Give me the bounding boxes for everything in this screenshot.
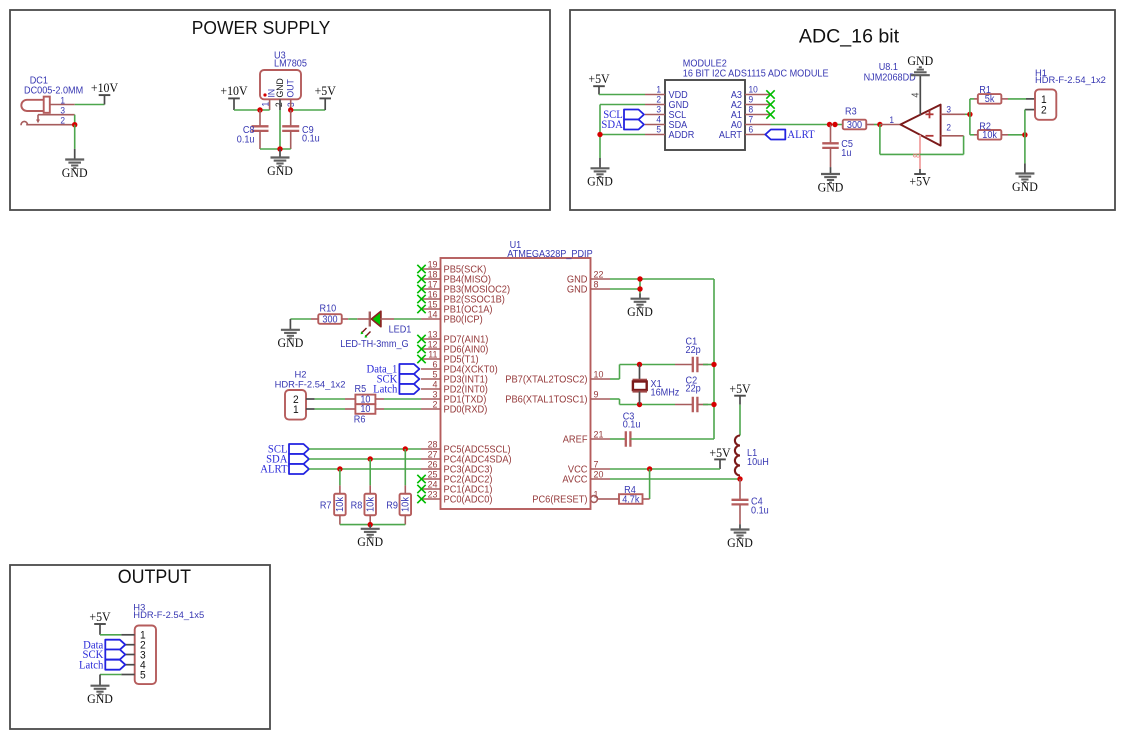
U1 pin 12 PD6(AIN0)	[421, 348, 441, 350]
op-amp plus mark	[926, 113, 934, 115]
U1 pin 16 PB2(SSOC1B)	[421, 298, 441, 300]
svg-text:R9: R9	[386, 500, 398, 511]
capacitor C8	[259, 110, 261, 126]
svg-text:GND: GND	[267, 163, 293, 177]
wire AREF to C3	[610, 438, 626, 440]
svg-text:2: 2	[60, 115, 65, 125]
U1 pin 3 PD1(TXD)	[421, 398, 441, 400]
wire AVCC to L1	[610, 478, 740, 480]
svg-text:GND: GND	[275, 78, 285, 98]
resistor R6	[355, 404, 375, 414]
wire feedback up to pin 2	[963, 136, 965, 155]
wire MODULE2 GND pin to ground rail	[600, 104, 645, 106]
junction R2/H1 pin2/GND	[1022, 132, 1027, 137]
wire C3 to GND rail	[630, 438, 714, 440]
U1 pin 26 PC3(ADC3)	[421, 468, 441, 470]
wire U3 pin3 to +5V	[291, 109, 326, 111]
svg-text:OUT: OUT	[285, 79, 295, 98]
svg-text:22p: 22p	[686, 383, 701, 394]
junction ground rail	[277, 146, 282, 151]
svg-text:17: 17	[428, 279, 438, 289]
svg-text:8: 8	[749, 104, 754, 114]
wire +5V to H3 pin 1	[100, 634, 121, 636]
wire feedback from output node down	[879, 125, 881, 155]
wire A0 to R3	[771, 124, 843, 126]
ground GND at U1 right	[631, 299, 650, 308]
R1 lead to H1 pin 1	[1001, 98, 1008, 100]
power symbol +5V below op-amp	[919, 169, 921, 174]
svg-text:AVCC: AVCC	[562, 474, 587, 485]
svg-text:3: 3	[946, 104, 951, 114]
svg-text:HDR-F-2.54_1x2: HDR-F-2.54_1x2	[275, 378, 346, 389]
U1 pin 2 PD0(RXD)	[421, 408, 441, 410]
no-connect X on MODULE2 A2	[766, 100, 774, 108]
junction ADDR/ground	[597, 132, 602, 137]
svg-text:SDA: SDA	[601, 119, 622, 131]
wire DC1 junction to GND	[74, 125, 76, 149]
wire H2 pin1 to R6	[315, 408, 345, 410]
junction AVCC/L1/C4	[737, 476, 742, 481]
svg-text:GND: GND	[62, 165, 88, 179]
junction GND22	[637, 276, 642, 281]
svg-text:R1: R1	[979, 85, 991, 96]
ground GND at C5	[821, 174, 840, 183]
DC1 pin 2 lead (sleeve)	[26, 124, 74, 126]
global label SCL flag at U1	[289, 444, 309, 454]
no-connect X on U1 pin 23	[417, 495, 425, 503]
svg-text:8: 8	[912, 153, 923, 158]
R4 lead to PC6	[610, 498, 619, 500]
svg-text:16MHz: 16MHz	[651, 387, 680, 398]
svg-text:GND: GND	[278, 336, 304, 350]
svg-text:ATMEGA328P_PDIP: ATMEGA328P_PDIP	[507, 249, 592, 260]
no-connect X on MODULE2 A1	[766, 110, 774, 118]
svg-text:R5: R5	[355, 384, 367, 395]
resistor R8 (vertical)	[369, 485, 371, 493]
svg-text:+5V: +5V	[909, 174, 930, 188]
svg-text:GND: GND	[907, 54, 933, 68]
global label Data_1 flag	[399, 364, 419, 374]
R10 lead to LED	[342, 318, 349, 320]
flipped ground GND above op-amp	[911, 67, 930, 75]
U1 pin 11 PD5(T1)	[421, 358, 441, 360]
wire H2 pin2 to R5	[315, 398, 345, 400]
svg-text:LED-TH-3mm_G: LED-TH-3mm_G	[340, 339, 408, 350]
header H3 connector body	[135, 626, 156, 685]
svg-text:AREF: AREF	[563, 434, 588, 445]
U1 pin 20 AVCC	[591, 478, 611, 480]
svg-text:20: 20	[594, 469, 604, 479]
junction R9 tap on SCL	[403, 446, 408, 451]
global label Latch flag	[399, 384, 419, 394]
svg-text:PB7(XTAL2TOSC2): PB7(XTAL2TOSC2)	[505, 374, 587, 385]
svg-text:GND: GND	[357, 535, 383, 549]
svg-text:18: 18	[428, 269, 438, 279]
op-amp U8.1 triangle	[901, 105, 941, 146]
svg-text:GND: GND	[587, 174, 613, 188]
global label SCL flag at MODULE2	[624, 110, 644, 120]
svg-text:10: 10	[594, 369, 604, 379]
svg-text:Latch: Latch	[373, 383, 398, 395]
svg-text:GND: GND	[1012, 179, 1038, 193]
svg-text:POWER SUPPLY: POWER SUPPLY	[192, 17, 331, 38]
wire R7 tap down	[339, 469, 341, 485]
wire U3 pin 2 to ground rail	[279, 110, 281, 149]
wire feedback bottom	[880, 153, 964, 155]
junction C2 right	[711, 402, 716, 407]
power symbol +5V at L1	[739, 396, 741, 405]
svg-text:0.1u: 0.1u	[237, 134, 255, 145]
R3 lead to op-amp input	[866, 124, 874, 126]
svg-text:GND: GND	[567, 284, 588, 295]
global label ALRT flag at U1	[289, 464, 309, 474]
global label SCK flag at H3	[105, 650, 125, 660]
wire DC1 pin1 to +10V	[75, 104, 105, 106]
svg-text:300: 300	[322, 314, 337, 325]
svg-text:6: 6	[749, 124, 754, 134]
junction op-amp pin 1	[877, 122, 882, 127]
no-connect X on U1 pin 13	[417, 335, 425, 343]
U1 pin 8 GND	[591, 288, 611, 290]
capacitor C2	[675, 404, 693, 406]
U1 pin 27 PC4(ADC4SDA)	[421, 458, 441, 460]
junction at C5 tap	[827, 122, 832, 127]
connector DC1 barrel jack symbol	[21, 100, 44, 111]
svg-text:R2: R2	[979, 121, 991, 132]
svg-text:1: 1	[889, 115, 894, 125]
svg-text:28: 28	[428, 439, 438, 449]
wire U1 GND22 to rail	[610, 278, 714, 280]
U1 pin 9 PB6(XTAL1TOSC1)	[591, 398, 611, 400]
svg-text:DC005-2.0MM: DC005-2.0MM	[24, 85, 83, 96]
svg-text:+5V: +5V	[729, 382, 750, 396]
ground GND at U3	[271, 158, 290, 167]
svg-text:PD0(RXD): PD0(RXD)	[444, 404, 488, 415]
svg-text:GND: GND	[727, 535, 753, 549]
U1 pin 22 GND	[591, 278, 611, 280]
svg-text:300: 300	[847, 120, 862, 131]
wire U1 GND8 to junction	[610, 288, 640, 290]
svg-text:GND: GND	[87, 692, 113, 706]
junction R7 tap on ALRT	[337, 466, 342, 471]
svg-text:7: 7	[749, 114, 754, 124]
wire output node to R1	[969, 99, 971, 114]
svg-text:LED1: LED1	[389, 324, 412, 335]
ground GND at H1	[1015, 174, 1034, 183]
svg-text:ADC_16 bit: ADC_16 bit	[799, 26, 900, 48]
resistor R10	[318, 314, 342, 324]
svg-text:15: 15	[428, 299, 438, 309]
svg-text:3: 3	[433, 389, 438, 399]
wire GND tie vertical	[639, 279, 641, 294]
no-connect X on U1 pin 15	[417, 305, 425, 313]
header H1 connector body	[1035, 89, 1056, 119]
ground GND at C4	[731, 530, 750, 539]
global label ALRT flag at MODULE2	[765, 130, 785, 140]
U1 pin 23 PC0(ADC0)	[421, 498, 441, 500]
U1 pin 5 PD3(INT1)	[421, 378, 441, 380]
op-amp pin 2 lead	[941, 135, 964, 137]
svg-text:0.1u: 0.1u	[623, 419, 641, 430]
wire R8 tap down	[369, 459, 371, 485]
svg-text:9: 9	[749, 94, 754, 104]
op-amp pin 3 output lead	[941, 113, 965, 115]
resistor R9 (vertical)	[404, 485, 406, 493]
wire DC1 pin3 to pin2 junction	[74, 115, 76, 125]
svg-text:0.1u: 0.1u	[751, 505, 769, 516]
wire +5V to MODULE2 VDD	[599, 94, 645, 96]
MODULE2 pin 6 ALRT lead	[745, 134, 765, 136]
op-amp pin 4 power lead to GND	[919, 75, 921, 115]
LED1 anode lead to U1 pin 14	[380, 318, 394, 320]
capacitor C4	[739, 479, 741, 500]
U1 pin 17 PB3(MOSIOC2)	[421, 288, 441, 290]
svg-text:11: 11	[428, 349, 437, 359]
DC1 pin 3 lead with switch arrow	[38, 114, 75, 116]
MODULE2 pin 2 GND lead	[645, 104, 665, 106]
svg-text:PC0(ADC0): PC0(ADC0)	[444, 494, 493, 505]
svg-text:R10: R10	[320, 303, 337, 314]
led LED1 triangle	[371, 311, 381, 326]
svg-text:19: 19	[428, 259, 438, 269]
wire +10V to U3 pin1 through C8 junction	[234, 109, 270, 111]
svg-text:R8: R8	[351, 500, 363, 511]
H3 pin 4 stub	[121, 664, 134, 666]
wire output node to R2	[969, 114, 971, 135]
wire junction to GND	[1024, 135, 1026, 164]
svg-text:+5V: +5V	[315, 84, 336, 98]
svg-text:NJM2068DD: NJM2068DD	[864, 72, 916, 83]
global label SCK flag	[399, 374, 419, 384]
R5 lead to U1 pin 3	[375, 398, 384, 400]
U1 pin 15 PB1(OC1A)	[421, 308, 441, 310]
no-connect X on U1 pin 17	[417, 285, 425, 293]
R2 lead to GND node	[1001, 134, 1008, 136]
svg-text:R7: R7	[320, 500, 332, 511]
wire ALRT to U1 pin 26	[309, 468, 421, 470]
U1 pin 1 PC6(RESET)	[591, 496, 598, 503]
svg-text:12: 12	[428, 339, 438, 349]
svg-text:6: 6	[433, 359, 438, 369]
svg-text:ALRT: ALRT	[260, 463, 287, 475]
H3 pin 5 stub	[121, 674, 134, 676]
MODULE2 pin 3 SCL lead	[645, 114, 665, 116]
global label SDA flag at U1	[289, 454, 309, 464]
svg-text:24: 24	[428, 479, 438, 489]
regulator U3 LM7805 body	[260, 70, 301, 99]
junction C1 right	[711, 362, 716, 367]
svg-text:22p: 22p	[686, 345, 701, 356]
junction at DC1 pin2	[72, 122, 77, 127]
svg-text:14: 14	[428, 309, 438, 319]
frame: POWER SUPPLY section box	[10, 10, 550, 210]
wire SDA to U1 pin 27	[309, 458, 421, 460]
no-connect X on U1 pin 11	[417, 355, 425, 363]
no-connect X on U1 pin 19	[417, 265, 425, 273]
capacitor C3	[626, 431, 631, 447]
ground GND under R8	[361, 529, 380, 538]
U3 pin 2 lead	[279, 99, 281, 110]
MODULE2 pin 1 VDD lead	[645, 94, 665, 96]
ground GND left of MODULE2	[591, 168, 610, 177]
op-amp pin 8 power lead to +5V (highlighted)	[919, 135, 921, 169]
wire GND to R10	[290, 318, 311, 320]
svg-text:1: 1	[656, 84, 661, 94]
frame: OUTPUT section box	[10, 565, 270, 729]
R6 lead to U1 pin 2	[375, 408, 384, 410]
wire R4 node down	[649, 469, 651, 499]
svg-text:1: 1	[293, 404, 299, 416]
MODULE2 pin 7 A0 lead	[745, 124, 771, 126]
svg-text:5: 5	[656, 124, 661, 134]
svg-text:23: 23	[428, 489, 438, 499]
junction C9 top	[288, 107, 293, 112]
power symbol +10V at U3 input	[233, 98, 235, 110]
wire SCL to U1 pin 28	[309, 448, 421, 450]
op-amp minus mark	[926, 135, 934, 137]
svg-text:HDR-F-2.54_1x2: HDR-F-2.54_1x2	[1035, 74, 1106, 85]
svg-text:16: 16	[428, 289, 438, 299]
junction C8 top	[257, 107, 262, 112]
led LED1 cathode bar	[369, 312, 371, 327]
H2 pin 1 stub	[306, 408, 315, 410]
svg-text:10uH: 10uH	[747, 457, 769, 468]
U1 pin 28 PC5(ADC5SCL)	[421, 448, 441, 450]
frame: ADC_16 bit section box	[570, 10, 1115, 210]
wire GND rail vertical right of U1	[713, 279, 715, 439]
wire U1 pin9 to crystal bottom row	[610, 398, 620, 400]
no-connect X on U1 pin 12	[417, 345, 425, 353]
resistor R5	[355, 395, 375, 405]
svg-text:ALRT: ALRT	[719, 130, 742, 141]
svg-text:8: 8	[594, 279, 599, 289]
svg-text:R3: R3	[845, 106, 857, 117]
wire ground rail under C8 C9	[260, 148, 291, 150]
U3 pin 3 lead	[290, 99, 292, 110]
U3 pin 1 lead	[269, 99, 271, 110]
capacitor C5	[830, 125, 832, 144]
U1 pin 6 PD4(XCKT0)	[421, 368, 441, 370]
U1 pin 4 PD2(INT0)	[421, 388, 441, 390]
svg-text:GND: GND	[627, 305, 653, 319]
svg-text:+5V: +5V	[588, 72, 609, 86]
svg-text:R4: R4	[624, 485, 636, 496]
LED1 emission arrows	[362, 328, 371, 337]
no-connect X on MODULE2 A3	[766, 90, 774, 98]
svg-text:LM7805: LM7805	[274, 58, 307, 69]
resistor R1	[978, 94, 1002, 104]
svg-text:9: 9	[594, 389, 599, 399]
resistor R2	[978, 130, 1002, 140]
global label SDA flag at MODULE2	[624, 120, 644, 130]
DC1 pin 1 lead	[50, 104, 75, 106]
U1 pin 18 PB4(MISO)	[421, 278, 441, 280]
U1 pin 25 PC2(ADC2)	[421, 478, 441, 480]
svg-text:4: 4	[433, 379, 438, 389]
svg-text:5: 5	[433, 369, 438, 379]
svg-text:+10V: +10V	[220, 84, 247, 98]
resistor R3	[843, 120, 867, 130]
wire H3 pin 5 to GND	[100, 674, 121, 676]
header H2 connector body	[285, 390, 306, 420]
global label Data flag at H3	[105, 640, 125, 650]
svg-text:4: 4	[656, 114, 661, 124]
H1 pin 2 stub	[1025, 109, 1035, 111]
svg-text:3: 3	[60, 105, 65, 115]
resistor R7 (vertical)	[339, 485, 341, 493]
op-amp U8.1 pin 1 lead	[880, 124, 901, 126]
no-connect X on U1 pin 25	[417, 475, 425, 483]
junction R8 tap on SDA	[368, 456, 373, 461]
MODULE2 pin 10 A3 lead	[745, 94, 771, 96]
svg-text:2: 2	[946, 122, 951, 132]
U1 pin 7 VCC	[591, 468, 611, 470]
junction GND8	[637, 286, 642, 291]
mcu U1 ATMEGA328P_PDIP body	[441, 258, 591, 509]
junction at C5 tap 2	[832, 122, 837, 127]
svg-text:1: 1	[594, 489, 599, 499]
ground GND at H3	[91, 686, 110, 695]
no-connect X on U1 pin 16	[417, 295, 425, 303]
svg-text:ADDR: ADDR	[669, 130, 695, 141]
svg-text:10k: 10k	[335, 497, 346, 512]
MODULE2 pin 4 SDA lead	[645, 124, 665, 126]
svg-text:ALRT: ALRT	[787, 129, 814, 141]
svg-text:Latch: Latch	[79, 659, 104, 671]
U1 pin 21 AREF	[591, 438, 611, 440]
junction VCC/R4	[647, 466, 652, 471]
wire H1 pin2 down to junction	[1024, 110, 1026, 135]
svg-text:4: 4	[910, 93, 921, 98]
svg-text:2: 2	[274, 102, 284, 107]
svg-text:OUTPUT: OUTPUT	[118, 565, 191, 587]
ground GND at R10	[281, 330, 300, 339]
power symbol +5V at VCC	[719, 459, 721, 469]
svg-text:+10V: +10V	[91, 81, 118, 95]
svg-text:7: 7	[594, 459, 599, 469]
capacitor C9	[290, 110, 292, 126]
H3 pin 2 stub	[121, 644, 134, 646]
svg-text:PB6(XTAL1TOSC1): PB6(XTAL1TOSC1)	[505, 394, 587, 405]
U1 pin 10 PB7(XTAL2TOSC2)	[591, 378, 611, 380]
junction crystal top	[637, 362, 642, 367]
svg-text:25: 25	[428, 469, 438, 479]
power symbol +10V at DC1	[104, 95, 106, 104]
svg-text:27: 27	[428, 449, 438, 459]
svg-text:21: 21	[594, 429, 604, 439]
global label Latch flag at H3	[105, 660, 125, 670]
junction resistor bottom rail	[368, 522, 373, 527]
capacitor C1	[675, 364, 693, 366]
svg-text:1: 1	[60, 95, 65, 105]
svg-text:13: 13	[428, 329, 438, 339]
MODULE2 pin 9 A2 lead	[745, 104, 771, 106]
svg-text:+5V: +5V	[89, 609, 110, 623]
svg-text:16 BIT I2C ADS1115 ADC MODULE: 16 BIT I2C ADS1115 ADC MODULE	[683, 68, 829, 79]
wire VCC to +5V	[610, 468, 720, 470]
svg-text:10k: 10k	[400, 497, 411, 512]
H3 pin 1 stub	[121, 634, 134, 636]
svg-text:PB0(ICP): PB0(ICP)	[444, 314, 483, 325]
svg-text:2: 2	[1041, 104, 1047, 116]
module MODULE2 ADS1115 box	[665, 80, 745, 150]
wire R9 tap down	[404, 449, 406, 485]
U3 pin 1 dot	[263, 93, 266, 96]
ground GND at DC1	[65, 160, 84, 169]
svg-text:3: 3	[656, 104, 661, 114]
svg-text:0.1u: 0.1u	[302, 133, 320, 144]
crystal X1	[639, 365, 641, 380]
